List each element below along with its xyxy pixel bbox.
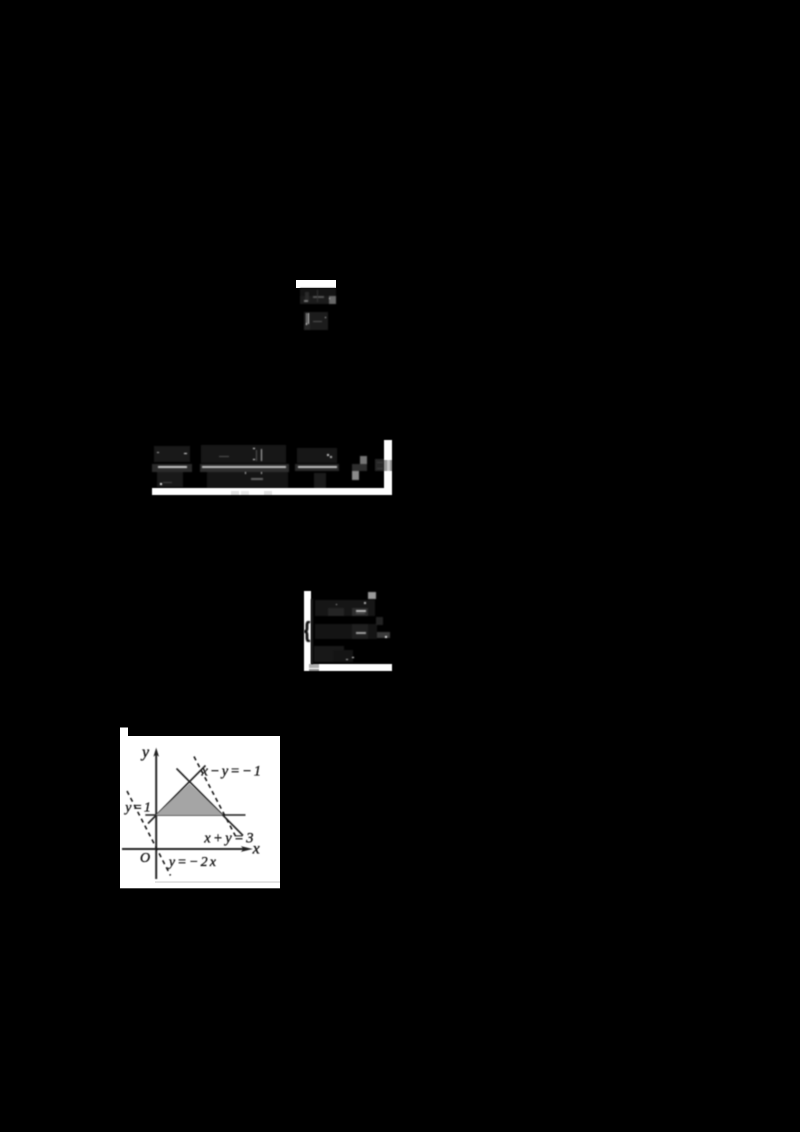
svg-text:O: O (140, 851, 150, 866)
svg-text:y: y (140, 744, 150, 761)
svg-text:x+y=3: x+y=3 (203, 830, 256, 846)
svg-text:y=1: y=1 (123, 801, 152, 816)
svg-text:y=−2x: y=−2x (167, 855, 218, 870)
svg-text:x−y=−1: x−y=−1 (201, 764, 263, 780)
